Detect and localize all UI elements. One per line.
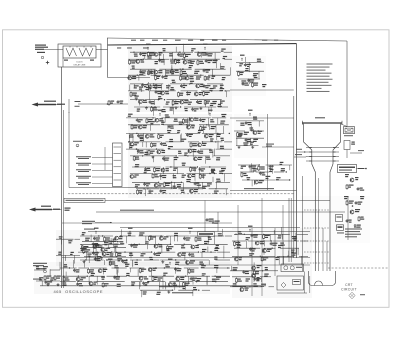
wire (right HV rail)	[296, 44, 298, 258]
label: power tag	[33, 263, 47, 264]
wire	[223, 252, 225, 258]
capacitor C4835	[270, 242, 272, 243]
node (junction)	[164, 99, 165, 100]
wire	[224, 174, 226, 182]
node (junction)	[215, 281, 216, 282]
resistor R4716	[148, 70, 150, 71]
connector P470 shell	[113, 143, 123, 187]
svg-text:DL470: DL470	[76, 62, 83, 64]
wire	[142, 142, 144, 147]
node (tp circle)	[44, 270, 47, 273]
transistor Q4742	[180, 100, 184, 104]
wire	[253, 180, 255, 185]
ground	[57, 283, 59, 284]
capacitor C4818	[131, 244, 133, 245]
wire	[240, 171, 254, 173]
label: tag below	[117, 47, 121, 50]
capacitor C4758	[168, 125, 170, 126]
label: value text	[36, 266, 39, 267]
label: value text	[207, 183, 212, 184]
label: grid tags	[296, 148, 302, 151]
wire	[210, 107, 212, 112]
label: value text	[82, 232, 86, 233]
label: value text	[257, 59, 261, 60]
wire	[132, 166, 161, 168]
label: value text	[219, 171, 223, 172]
wire (plate riser 1)	[318, 210, 320, 271]
label: value text	[202, 186, 206, 187]
label: value text	[270, 169, 274, 170]
label: value text	[177, 130, 180, 131]
wire (dl input)	[44, 49, 63, 51]
wire	[110, 238, 112, 244]
wire	[174, 282, 176, 291]
label: value text	[173, 175, 176, 176]
node (junction)	[194, 117, 195, 118]
capacitor C4764	[186, 133, 188, 134]
wire	[60, 281, 76, 283]
wire	[177, 167, 179, 174]
label: value text	[145, 241, 148, 242]
wire	[213, 155, 230, 157]
CRT electrode 3	[306, 156, 339, 158]
capacitor C4783	[199, 168, 201, 169]
wire	[258, 71, 260, 79]
wire	[263, 270, 278, 272]
wire	[212, 149, 214, 157]
node (junction)	[183, 69, 184, 70]
wire	[195, 281, 228, 283]
resistor R4841	[253, 270, 255, 271]
resistor R4705	[183, 53, 185, 54]
wire (left main vertical)	[61, 67, 63, 288]
wire	[92, 183, 113, 185]
node (junction)	[170, 244, 171, 245]
wire	[261, 277, 263, 282]
node (junction)	[143, 59, 144, 60]
label: value text	[188, 102, 192, 103]
wire	[155, 236, 157, 245]
label: holdoff tag 1	[82, 221, 95, 222]
wire	[258, 121, 260, 127]
connector P470 pin 3	[114, 159, 122, 161]
wire	[164, 69, 166, 75]
label: value text	[172, 80, 175, 81]
label: value text	[139, 87, 143, 88]
label: value text	[64, 264, 67, 265]
transistor Q4774	[188, 149, 192, 153]
node (junction)	[124, 251, 125, 252]
label: bus tag	[212, 39, 218, 42]
label: bus tag	[152, 39, 158, 42]
wire	[130, 155, 161, 157]
node (junction)	[225, 90, 226, 91]
wire	[117, 270, 119, 277]
resistor R4722	[155, 75, 157, 76]
wire	[130, 51, 155, 53]
wire	[160, 188, 173, 190]
wire	[149, 90, 176, 92]
wire (to +12V)	[350, 152, 362, 154]
wire	[150, 268, 152, 276]
label: value text	[167, 130, 171, 131]
node (tp)	[352, 205, 354, 207]
label: anode tag	[344, 134, 353, 137]
label: value text	[125, 264, 129, 265]
off-page arrow (A sweep)	[32, 103, 57, 107]
resistor R4846	[87, 268, 89, 269]
label: value text	[189, 65, 193, 66]
node (junction)	[262, 270, 263, 271]
wire	[103, 260, 105, 265]
label: value text	[68, 240, 72, 241]
label: value text	[278, 235, 282, 236]
label: value text	[97, 256, 102, 257]
capacitor C4799	[245, 138, 247, 139]
CRT deflection lead 1	[304, 209, 330, 211]
wire	[128, 90, 145, 92]
wire	[182, 51, 194, 53]
node (junction)	[148, 281, 149, 282]
label: value text	[174, 157, 179, 158]
node (junction)	[134, 244, 135, 245]
wire	[132, 133, 134, 142]
wire	[164, 156, 166, 162]
CRT heater arc	[315, 281, 323, 286]
wire	[171, 67, 173, 76]
wire	[158, 52, 160, 61]
transistor Q4787	[188, 174, 192, 178]
wire	[186, 268, 188, 275]
label: value text	[218, 104, 221, 105]
wire	[184, 267, 199, 269]
wire	[276, 179, 290, 181]
node (junction)	[251, 248, 252, 249]
label: value text	[245, 68, 248, 69]
CRT electrode 1	[306, 147, 339, 149]
resistor R4772	[148, 150, 150, 151]
capacitor C4825	[154, 252, 156, 253]
ground	[200, 107, 202, 108]
wire	[246, 241, 248, 249]
label: corner tag	[33, 278, 41, 281]
label: value text	[246, 278, 250, 279]
wire (left drop)	[107, 38, 109, 78]
wire	[216, 148, 232, 150]
connector P470 pin 1	[114, 146, 122, 148]
capacitor C4740	[149, 100, 151, 101]
wire	[134, 106, 160, 108]
capacitor C4749	[248, 79, 250, 80]
hv detail box	[277, 276, 304, 290]
wire (inner corner)	[69, 187, 205, 189]
capacitor C4800	[249, 165, 251, 166]
wire	[90, 267, 107, 269]
label: value text	[87, 254, 91, 255]
node (junction)	[184, 59, 185, 60]
wire	[234, 233, 262, 235]
voltage arrow	[109, 262, 111, 265]
resistor R4744	[204, 100, 206, 101]
resistor R4806	[83, 248, 85, 249]
capacitor C4845	[73, 269, 75, 270]
label: value text	[291, 250, 294, 251]
label: value text	[193, 287, 196, 288]
node (junction)	[85, 259, 86, 260]
wire (front panel rail)	[96, 211, 345, 213]
wire	[49, 269, 51, 276]
wire	[121, 229, 123, 236]
label: value text	[129, 134, 133, 135]
CRT envelope	[302, 122, 342, 271]
wire	[146, 150, 148, 156]
wire	[238, 78, 260, 80]
resistor R4812	[148, 235, 150, 236]
capacitor C4794	[160, 189, 162, 190]
wire	[194, 51, 220, 53]
node (junction)	[187, 75, 188, 76]
node (junction)	[142, 155, 143, 156]
node (junction)	[196, 281, 197, 282]
capacitor C4775	[197, 150, 199, 151]
node (junction)	[136, 99, 137, 100]
resistor R4763	[158, 134, 160, 135]
wire	[78, 251, 108, 253]
wire	[174, 268, 176, 274]
label: value text	[101, 277, 105, 278]
node (junction)	[120, 235, 121, 236]
wire	[171, 65, 173, 70]
wire (long rail 227)	[120, 227, 300, 229]
wire	[167, 99, 189, 101]
label: value text	[169, 139, 173, 140]
label: value text	[170, 107, 174, 108]
wire	[215, 259, 230, 261]
label: value text	[222, 77, 226, 78]
wire	[59, 262, 61, 270]
resistor R4741	[252, 82, 254, 83]
label: value text	[155, 61, 159, 62]
wire (panel feed)	[105, 200, 330, 202]
delay line winding 2	[79, 48, 93, 56]
wire	[159, 68, 191, 70]
resistor R4733	[130, 92, 132, 93]
transistor Q4770	[198, 143, 202, 147]
transistor Q4795	[190, 189, 194, 193]
CRT faceplate tick left	[301, 121, 303, 125]
capacitor C4859	[77, 282, 79, 283]
off-page arrow (Z axis)	[29, 208, 52, 212]
wire	[208, 74, 230, 76]
resistor R4832	[263, 234, 265, 235]
label: value text	[134, 85, 139, 86]
label: value text	[182, 163, 186, 164]
wire	[60, 267, 77, 269]
label: value text	[166, 70, 170, 71]
label: value text	[166, 248, 169, 249]
label: arrow name	[44, 101, 56, 102]
anode connector flag	[344, 127, 355, 134]
capacitor C4822	[92, 251, 94, 252]
label: value text	[281, 168, 285, 169]
node (junction)	[160, 235, 161, 236]
node (junction)	[229, 133, 230, 134]
wire	[212, 177, 214, 183]
wire	[184, 255, 186, 260]
wire	[130, 83, 144, 85]
voltage arrow	[249, 229, 251, 232]
capacitor C4850	[175, 267, 177, 268]
wire	[128, 243, 145, 245]
wire	[147, 82, 149, 91]
voltage arrow	[129, 231, 131, 234]
node (junction)	[286, 171, 287, 172]
wire	[62, 275, 87, 277]
wire	[165, 181, 183, 183]
wire	[139, 282, 141, 287]
node (junction)	[171, 182, 172, 183]
label: value text	[240, 123, 244, 124]
wire	[215, 125, 217, 133]
wire	[112, 267, 127, 269]
CRT deflection lead 2	[304, 227, 330, 229]
label: bus tag	[175, 39, 181, 42]
wire	[205, 102, 207, 108]
transistor Q4718	[170, 70, 174, 74]
wire	[147, 244, 149, 249]
wire	[189, 259, 209, 261]
label: value text	[113, 239, 116, 240]
wire (grid lead)	[297, 151, 307, 153]
label: value text	[237, 245, 241, 246]
node (junction)	[244, 234, 245, 235]
label: hv mid tags	[345, 174, 349, 175]
node (junction)	[200, 75, 201, 76]
label: dl terminals	[64, 60, 68, 61]
label: value text	[186, 92, 191, 93]
wire	[278, 256, 280, 264]
diode CR4746	[212, 220, 214, 221]
capacitor C4854	[114, 276, 116, 277]
node (junction)	[217, 133, 218, 134]
label: value text	[243, 142, 248, 143]
node (junction)	[137, 75, 138, 76]
resistor R4785	[152, 173, 154, 174]
wire (inner vertical)	[68, 112, 70, 188]
wire	[150, 125, 152, 131]
wire	[187, 173, 217, 175]
wire (riser ext)	[318, 178, 320, 210]
label: value text	[250, 127, 254, 128]
node (junction)	[78, 276, 79, 277]
label: value text	[146, 87, 151, 88]
wire	[130, 173, 153, 175]
delay line DL470 inner box	[63, 46, 96, 58]
capacitor C4743	[196, 100, 198, 101]
label: value text	[117, 284, 121, 285]
wire	[165, 282, 167, 290]
wire	[56, 238, 74, 240]
transistor Q4838	[234, 257, 238, 261]
wire	[130, 259, 142, 261]
label: value text	[249, 253, 254, 254]
capacitor C4754	[346, 219, 348, 220]
label: value text	[184, 153, 187, 154]
wire	[169, 236, 171, 245]
wire (dl output)	[96, 49, 108, 51]
wire	[156, 84, 158, 88]
label: value text	[221, 114, 226, 115]
wire (hv box drop)	[304, 272, 306, 294]
wire	[236, 61, 264, 63]
transistor Q4778	[194, 157, 198, 161]
wire	[159, 282, 161, 291]
wire	[216, 268, 218, 273]
wire	[213, 236, 215, 245]
capacitor C4768	[160, 142, 162, 143]
wire	[126, 148, 137, 150]
wire	[165, 282, 167, 289]
wire	[225, 189, 227, 195]
CRT ring stub	[309, 151, 312, 153]
wire	[173, 159, 175, 167]
resistor R4705	[108, 100, 110, 101]
resistor R4852	[63, 276, 65, 277]
wire	[212, 69, 214, 76]
resistor R4856	[152, 276, 154, 277]
svg-text:CIRCUIT: CIRCUIT	[341, 287, 357, 291]
node (junction)	[198, 52, 199, 53]
wire	[214, 53, 216, 62]
node (junction)	[106, 259, 107, 260]
voltage arrow	[209, 113, 211, 116]
wire	[273, 230, 275, 234]
label: value text	[95, 244, 100, 245]
wire (hv mid verticals)	[251, 228, 253, 296]
label: value text	[204, 241, 209, 242]
label: bus tag	[200, 39, 204, 42]
wire	[50, 269, 60, 271]
wire (gate drop 1)	[204, 201, 206, 232]
transistor Q4857	[176, 277, 180, 281]
node (junction)	[114, 247, 115, 248]
label: value text	[216, 277, 221, 278]
node (junction)	[255, 276, 256, 277]
transistor Q4784	[130, 175, 134, 179]
label: value text	[85, 238, 90, 239]
label: value text	[247, 177, 251, 178]
wire (anode drop)	[346, 41, 348, 127]
label: value text	[181, 190, 184, 191]
wire	[297, 233, 308, 235]
wire	[132, 260, 134, 267]
label: value text	[253, 139, 258, 140]
wire	[269, 234, 271, 240]
wire	[65, 272, 67, 277]
wire	[166, 235, 189, 237]
capacitor C4803	[259, 172, 261, 173]
label: FROM VERTICAL AMP	[35, 45, 46, 46]
wire	[178, 188, 202, 190]
wire	[274, 171, 284, 173]
wire	[103, 256, 126, 258]
wire	[180, 251, 199, 253]
wire	[132, 181, 158, 183]
transistor Q4860	[89, 282, 93, 286]
wire	[251, 130, 264, 132]
transistor Q4725	[185, 76, 189, 80]
wire (plate riser 2)	[322, 228, 324, 271]
